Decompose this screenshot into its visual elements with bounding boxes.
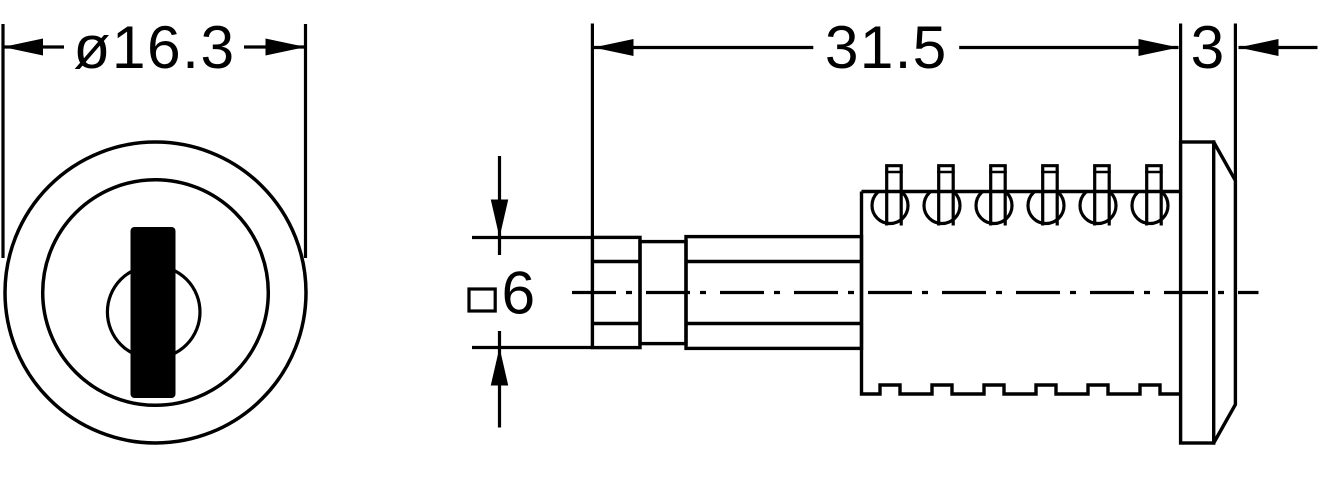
svg-text:ø16.3: ø16.3 xyxy=(73,13,235,81)
svg-text:6: 6 xyxy=(501,258,535,326)
svg-text:31.5: 31.5 xyxy=(825,13,948,81)
svg-text:3: 3 xyxy=(1191,13,1225,81)
